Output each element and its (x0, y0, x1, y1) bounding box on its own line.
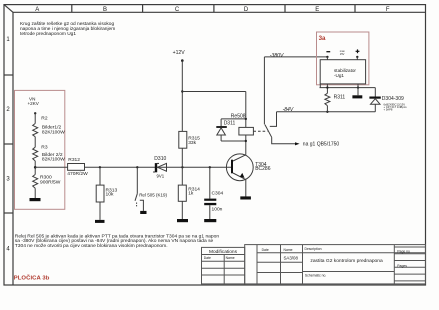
resistor R312 470R/2W (68, 164, 85, 171)
title block (202, 245, 426, 284)
svg-text:T304 ne može otvoriti pa cijev: T304 ne može otvoriti pa cijev ostane bl… (15, 243, 168, 249)
wire stabilizator output net (320, 84, 376, 112)
wire (181, 167, 183, 185)
wire (34, 113, 36, 123)
ground stabilizator plus (357, 84, 359, 95)
label PLOCICA 3b (red) (14, 274, 50, 281)
wire dashed relay linkage (253, 130, 267, 132)
svg-text:Schematic no.: Schematic no. (305, 274, 327, 278)
resistor R311 (325, 93, 330, 105)
svg-text:Date: Date (262, 248, 269, 252)
svg-text:+12V: +12V (173, 50, 186, 56)
resistor R313 10k (96, 185, 104, 202)
ground below R313 (95, 220, 105, 223)
ground below emitter (240, 196, 251, 199)
node junction R311 bottom (326, 111, 328, 113)
label na g1 QB5/1750 (303, 141, 340, 147)
arrow to g1 (295, 142, 300, 145)
terminal minus (326, 51, 330, 53)
label -84V (283, 107, 294, 113)
node VN +2KV (28, 97, 40, 107)
svg-text:1k: 1k (188, 191, 194, 197)
node junction relay top (245, 118, 247, 120)
svg-text:SA3/08: SA3/08 (284, 256, 299, 261)
svg-text:PLOČICA 3b: PLOČICA 3b (14, 274, 50, 281)
wire (99, 202, 101, 220)
svg-text:R3: R3 (41, 145, 48, 151)
tiny rating text (340, 50, 346, 56)
svg-text:E: E (315, 7, 319, 13)
node terminal dots stabilizator (326, 56, 358, 58)
resistor R315 33k (179, 131, 187, 148)
resistor R2 Bilder1/2 82K/100W (33, 124, 38, 137)
svg-text:A: A (35, 7, 39, 13)
label +12V (173, 50, 186, 56)
node junction ground stub (357, 86, 359, 88)
wire (209, 205, 211, 219)
svg-text:2: 2 (6, 107, 10, 113)
transistor T304 BC286 (226, 154, 253, 181)
wire (34, 188, 36, 198)
resistor R3 Bilder 2/2 82K/100W (33, 147, 38, 161)
svg-text:1: 1 (6, 37, 10, 43)
node junction C304 (209, 166, 211, 168)
node +12V terminal dot (181, 59, 184, 62)
wire (181, 201, 183, 219)
ground below Rel505 contact (140, 211, 146, 214)
svg-text:470R/2W: 470R/2W (67, 171, 88, 177)
svg-text:Name: Name (226, 256, 235, 260)
svg-text:-380V: -380V (270, 53, 284, 59)
svg-text:R312: R312 (68, 157, 80, 163)
box 3a (red) (317, 32, 369, 85)
svg-text:D: D (244, 7, 249, 13)
wire (209, 167, 211, 198)
svg-text:-Ug1: -Ug1 (334, 73, 344, 78)
box VN high-voltage section (red) (15, 90, 65, 209)
svg-text:Rel 505 (K19): Rel 505 (K19) (139, 192, 167, 197)
resistor R300 900R/5W (33, 175, 38, 189)
svg-text:9V1: 9V1 (157, 174, 165, 179)
svg-text:R2: R2 (41, 115, 48, 121)
svg-text:Page no: Page no (397, 249, 410, 253)
wire +12V to relay (182, 92, 246, 128)
svg-text:Re508: Re508 (231, 114, 246, 120)
diode D310 9V1 zener (153, 163, 166, 172)
svg-text:-84V: -84V (283, 107, 294, 113)
relay coil Re508 (239, 127, 254, 135)
svg-text:4: 4 (6, 246, 10, 252)
svg-text:+ 5AP8: + 5AP8 (384, 107, 393, 111)
svg-text:Description: Description (305, 247, 322, 251)
svg-text:900R/5W: 900R/5W (40, 180, 61, 186)
label 3a (319, 35, 326, 42)
ground below R300 (30, 198, 41, 201)
wire (34, 161, 36, 175)
svg-text:100n: 100n (212, 206, 223, 212)
svg-text:BC286: BC286 (255, 166, 271, 172)
svg-text:R311: R311 (334, 94, 346, 100)
svg-text:C304: C304 (212, 190, 224, 196)
svg-text:Date: Date (204, 256, 211, 260)
svg-text:Name: Name (284, 248, 293, 252)
node VN terminal dot (34, 112, 36, 114)
svg-text:3: 3 (6, 177, 10, 183)
svg-text:15V: 15V (340, 52, 345, 56)
switch relay contact arm (265, 112, 296, 144)
svg-text:82K/100W: 82K/100W (42, 130, 65, 136)
resistor R314 1k (178, 185, 186, 201)
svg-text:+2KV: +2KV (28, 101, 40, 106)
wire main bias rail to base (35, 166, 231, 168)
wire emitter (245, 180, 247, 197)
label -380V (270, 53, 284, 59)
svg-text:B: B (103, 7, 107, 13)
ground below R314 (177, 219, 188, 222)
svg-text:33k: 33k (188, 140, 196, 146)
diode D304-309 zener chain (369, 88, 380, 112)
svg-text:D311: D311 (224, 121, 236, 127)
svg-text:3a: 3a (319, 35, 326, 42)
node junction relay contact Rel505 (136, 166, 138, 168)
switch contact Rel 505 (K19) (135, 194, 143, 211)
wire stabilizator stubs (327, 57, 357, 60)
node junction relay bottom (245, 140, 247, 142)
node junction divider tap (34, 166, 37, 169)
svg-text:Modifications: Modifications (209, 249, 238, 255)
terminal plus (356, 49, 360, 53)
note text top (20, 21, 115, 37)
svg-text:F: F (386, 7, 390, 13)
svg-text:C: C (175, 7, 180, 13)
node junction R311 top (326, 86, 328, 88)
note text bottom (15, 233, 220, 249)
node junction base/R315/R314 (181, 166, 183, 168)
wire relay to collector (245, 135, 247, 155)
svg-text:10k: 10k (106, 191, 114, 197)
svg-text:tetrode prednaponom Ug1: tetrode prednaponom Ug1 (20, 31, 76, 37)
diode D311 flyback (216, 119, 246, 141)
wire -380V (264, 57, 327, 125)
svg-text:D310: D310 (154, 156, 166, 162)
svg-text:82K/100W: 82K/100W (42, 157, 65, 163)
svg-text:D304-309: D304-309 (382, 96, 404, 102)
wire (99, 167, 101, 185)
svg-text:zastita G2 kontrolom prednapon: zastita G2 kontrolom prednapona (310, 258, 383, 264)
wire -84V rail (277, 111, 376, 113)
svg-text:Pages: Pages (397, 264, 407, 268)
ground below C304 (204, 219, 216, 222)
capacitor C304 100n (204, 199, 216, 206)
node junction R313 (99, 166, 101, 168)
node junction +12V branch (181, 90, 183, 92)
wire +12V vertical (181, 61, 183, 168)
svg-text:na g1 QB5/1750: na g1 QB5/1750 (303, 141, 340, 147)
svg-text:Bilder1/2: Bilder1/2 (42, 124, 62, 130)
wire (34, 137, 36, 148)
wire (136, 167, 138, 193)
stabilizator -Ug1 box (320, 60, 365, 84)
